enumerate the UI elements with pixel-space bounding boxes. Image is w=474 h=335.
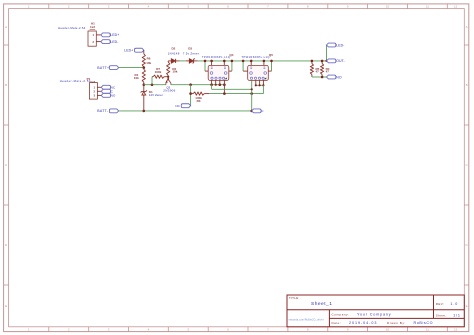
Q5 right side pin	[271, 61, 273, 71]
net flag C at switch common	[252, 109, 261, 113]
Q5 left side pin	[242, 61, 244, 71]
net flag NO right	[327, 75, 336, 79]
svg-text:12: 12	[454, 328, 458, 332]
transistor Q4 TPW1R306PL,L1Q	[208, 65, 229, 80]
junction Q5 pin1 riser	[250, 92, 253, 95]
svg-text:1N4148: 1N4148	[168, 52, 180, 56]
resistor R3 100k	[193, 92, 204, 95]
resistor R4 47	[321, 64, 324, 75]
svg-text:TPW1R306PL,L1Q: TPW1R306PL,L1Q	[241, 55, 269, 59]
zener diode D3 7.5V	[189, 58, 194, 63]
svg-text:NO: NO	[111, 94, 116, 98]
diode D2 1N4148	[171, 59, 175, 63]
svg-text:TPW1R306PL,L1Q: TPW1R306PL,L1Q	[202, 55, 230, 59]
svg-text:Sheet:: Sheet:	[436, 314, 447, 318]
svg-text:Date:: Date:	[332, 321, 342, 325]
riser gate rail to Q5 jumper	[262, 85, 264, 93]
H1 pin 2	[96, 41, 101, 43]
junction BATT- end / C flag	[250, 110, 253, 113]
title block texts	[289, 296, 447, 325]
svg-text:LED+: LED+	[124, 49, 133, 53]
junction R4 bottom	[321, 76, 324, 79]
junction OUT-/LED- riser	[325, 60, 327, 62]
wire LED+ to R6 top	[143, 50, 145, 54]
svg-text:10k: 10k	[146, 61, 151, 65]
svg-text:10: 10	[386, 4, 390, 8]
P1 pin 2	[97, 90, 101, 92]
junction rail Q5 top pin b	[263, 60, 266, 63]
Q5 pin1 long riser to BATT-/C	[251, 80, 253, 111]
Q4 left side pin	[204, 61, 206, 71]
svg-text:B: B	[5, 83, 7, 87]
svg-text:LED-: LED-	[336, 43, 345, 47]
svg-text:REV:: REV:	[436, 302, 445, 306]
wire LED- riser	[326, 45, 328, 61]
svg-text:11: 11	[426, 4, 429, 8]
R1 lead top	[143, 68, 145, 70]
svg-text:Header-Male-2.54: Header-Male-2.54	[58, 26, 86, 30]
svg-text:OUT-: OUT-	[336, 59, 345, 63]
svg-text:1.0: 1.0	[450, 302, 458, 306]
D2 cathode lead	[176, 60, 180, 62]
transistor Q5 TPW1R306PL,L1Q	[248, 65, 269, 80]
junction Q4 pin4	[223, 83, 226, 86]
resistor R6 10k	[142, 54, 145, 67]
net flag NC at P1 pin 1	[101, 85, 110, 89]
D3 cathode lead	[194, 60, 198, 62]
net flag LED- right	[327, 43, 336, 47]
svg-text:BATT+: BATT+	[97, 66, 109, 70]
junction rail R4	[321, 60, 324, 63]
title block	[287, 295, 464, 327]
net flag LED- at H1 pin 2	[101, 40, 110, 44]
junction Q5 jumper left	[255, 84, 257, 86]
wire Q3 collector to Q4 source pins	[171, 84, 225, 86]
wire R1 junction to Q3 emitter	[144, 84, 166, 86]
junction BATT+/R6/R1	[143, 66, 146, 69]
wire R5/R4 bottoms to NO flag	[312, 76, 327, 78]
frame row ticks and letters	[4, 45, 469, 285]
Q4 top pin stubs	[211, 61, 213, 66]
R5 bottom lead	[311, 75, 313, 78]
wire BATT- rail	[119, 110, 252, 112]
svg-text:easyeda.com/RuBisCO_driver: easyeda.com/RuBisCO_driver	[289, 318, 324, 321]
junction Q5 jumper right	[262, 84, 264, 86]
junction Q4 pin1	[210, 83, 213, 86]
svg-text:R6: R6	[147, 56, 151, 60]
svg-text:47: 47	[326, 70, 330, 74]
Q4 pin4 riser to gate rail	[223, 80, 225, 93]
junction Q4 pin3	[219, 83, 222, 86]
svg-text:Sheet_1: Sheet_1	[311, 301, 332, 307]
zener diode D1 12V	[141, 90, 147, 95]
svg-text:RuBisCO: RuBisCO	[414, 321, 434, 325]
resistor R7 100k	[153, 75, 164, 78]
svg-text:BATT-: BATT-	[97, 109, 108, 113]
wire R2 top to D2	[168, 60, 171, 62]
svg-text:2N3906: 2N3906	[163, 89, 175, 93]
net flag NO at P1 pin 3	[101, 93, 110, 97]
net flag BATT+	[109, 66, 118, 70]
P1 pin 1	[97, 86, 101, 88]
junction rail Q5 top pin a	[250, 60, 253, 63]
svg-text:10k: 10k	[134, 76, 139, 80]
svg-text:1x2: 1x2	[90, 25, 95, 29]
R3 left lead	[191, 93, 194, 95]
junction rail Q4 top pin a	[210, 60, 213, 63]
wire Q4 pin1 riser to W2	[211, 85, 213, 90]
junction R7 left leg	[151, 83, 154, 86]
resistor R5 47	[310, 64, 313, 75]
svg-text:12: 12	[454, 4, 458, 8]
svg-text:47: 47	[316, 70, 320, 74]
D3 anode lead	[186, 60, 190, 62]
svg-text:Your Company: Your Company	[357, 312, 391, 316]
wire D2 to D3	[180, 60, 186, 62]
svg-text:TITLE:: TITLE:	[289, 296, 300, 300]
svg-text:R3: R3	[197, 99, 201, 103]
transistor Q3 2N3906	[166, 77, 171, 85]
wire BATT+ to R6/R1 junction	[119, 67, 144, 69]
junction R1/D1/wire	[143, 83, 146, 86]
D1 lead top	[143, 85, 145, 92]
net flag LED+ at R6	[135, 48, 144, 52]
junction rail Q5 right riser	[270, 60, 273, 63]
Q5 top pin stubs	[250, 61, 252, 66]
svg-text:Drawn By:: Drawn By:	[387, 321, 406, 325]
svg-text:100k: 100k	[155, 70, 162, 74]
junction Q5 jumper	[259, 84, 261, 86]
junction R3 left	[189, 92, 192, 95]
svg-text:B: B	[466, 83, 468, 87]
svg-text:E: E	[5, 304, 7, 308]
net flag OUT-	[327, 59, 336, 63]
R3 right lead	[204, 93, 209, 95]
svg-text:NO: NO	[336, 75, 342, 79]
R2 top lead	[167, 61, 169, 62]
wire gate node vertical	[190, 85, 192, 106]
svg-text:LED-: LED-	[110, 40, 119, 44]
junction rail Q4 left riser	[204, 60, 207, 63]
Q5 bottom pin stubs	[255, 80, 257, 85]
net flag BATT-	[109, 109, 118, 113]
svg-text:D3: D3	[188, 47, 192, 51]
wire D3 to drain rail / OUT-	[198, 60, 327, 62]
D1 lead bottom	[143, 95, 145, 111]
connector H1	[58, 21, 96, 46]
connector P1	[60, 77, 98, 99]
resistor R2 10k	[167, 62, 170, 76]
svg-text:7.5v Zener: 7.5v Zener	[183, 52, 199, 56]
svg-text:12V Zener: 12V Zener	[149, 93, 163, 97]
junction W2 end	[251, 88, 253, 90]
junction Q4 pin2	[215, 84, 217, 86]
R7 left riser	[151, 77, 153, 85]
net flag C at P1 pin 2	[101, 89, 110, 93]
R4 top riser	[321, 61, 323, 64]
Q4 bottom pin stubs	[211, 80, 213, 84]
junction R7/R2/Q3 base	[167, 76, 169, 78]
svg-text:E: E	[466, 304, 468, 308]
svg-text:LED+: LED+	[110, 33, 119, 37]
svg-text:11: 11	[426, 328, 429, 332]
R1 lead bottom	[143, 82, 145, 84]
junction rail Q5 left riser	[242, 60, 245, 63]
wire gate rail y=93.6	[209, 93, 263, 95]
junction Q4 pin4 riser	[223, 92, 226, 95]
svg-text:NC: NC	[175, 104, 180, 108]
svg-text:D2: D2	[172, 47, 176, 51]
R2 bottom lead	[167, 76, 169, 77]
svg-text:2019-04-03: 2019-04-03	[349, 321, 377, 325]
H1 designator underline	[90, 28, 96, 30]
junction BATT-/D1	[143, 110, 146, 113]
net flag LED+ at H1 pin 1	[101, 33, 110, 37]
svg-text:10k: 10k	[172, 70, 177, 74]
svg-text:10: 10	[386, 328, 390, 332]
R4 bottom lead	[321, 75, 323, 78]
junction rail Q4 top pin b	[223, 60, 226, 63]
svg-text:A: A	[466, 25, 468, 29]
resistor R1 10k	[142, 69, 145, 82]
svg-text:Company:: Company:	[332, 312, 350, 316]
net flag NC near Q3	[181, 104, 190, 108]
R5 top riser	[311, 61, 313, 64]
junction rail R5	[311, 60, 314, 63]
Q5 bottom jumper	[256, 84, 264, 86]
junction gate drive node	[189, 83, 192, 86]
H1 pin 1	[96, 34, 101, 36]
R6 lead	[143, 66, 145, 69]
junction rail Q4 right riser	[231, 60, 234, 63]
P1 pin 3	[97, 94, 101, 96]
svg-text:1/1: 1/1	[453, 313, 461, 317]
svg-text:A: A	[5, 25, 7, 29]
R7 right lead	[164, 76, 168, 78]
wire W2 source link	[212, 88, 252, 90]
Q4 right side pin	[231, 61, 233, 71]
